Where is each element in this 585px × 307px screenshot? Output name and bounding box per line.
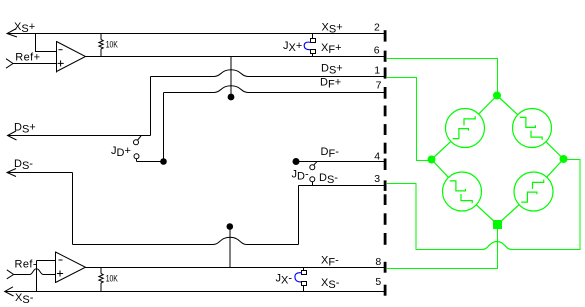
svg-text:JD-: JD- [292, 169, 309, 183]
arrow XS- left [5, 287, 14, 296]
bridge node left [428, 156, 436, 164]
svg-text:2: 2 [374, 22, 380, 34]
connector dash pin 4 [384, 159, 387, 171]
green wire continue to bridge right node [512, 160, 580, 250]
wire DF+ vertical drop [163, 93, 165, 159]
svg-text:XS+: XS+ [322, 21, 343, 35]
green wire left node to G3 [432, 160, 449, 178]
resistor R2 10K feedback [99, 268, 103, 292]
green wire G2 to right node [546, 142, 564, 159]
svg-text:Ref+: Ref+ [15, 52, 40, 64]
svg-text:DF-: DF- [321, 146, 340, 160]
svg-text:JX+: JX+ [283, 40, 302, 54]
connector dash free 6 [384, 233, 387, 245]
svg-text:DS-: DS- [14, 158, 33, 172]
wire XS- sense line [5, 291, 384, 293]
svg-text:XF-: XF- [321, 254, 339, 268]
connector dash free 2 [384, 124, 387, 135]
connector dash pin 8 [384, 262, 387, 273]
wire XF+ branch vertical [230, 57, 232, 95]
junction dot below DF+ hop [228, 94, 235, 101]
green wire G1 to left node [432, 141, 451, 159]
connector dash pin 6 [384, 51, 387, 62]
green wire top node to G1 [479, 96, 497, 115]
connector dash free 4 [384, 194, 387, 205]
strain gauge G4 lower-right [514, 172, 553, 211]
wire DF+ pin line with hop [164, 86, 385, 93]
jumper JX+ [304, 34, 315, 57]
svg-text:10K: 10K [106, 40, 119, 50]
svg-text:3: 3 [374, 173, 380, 185]
bridge node top [493, 92, 501, 100]
wire Ref+ to non-inverting input of U1 [13, 63, 57, 65]
green wire pin1 DS+ to bridge left [387, 78, 428, 161]
wire inverting feedback vertical [36, 261, 38, 292]
jumper JX- [295, 268, 307, 292]
wire DS+ pin line with hop [151, 70, 385, 77]
svg-text:JD+: JD+ [111, 145, 131, 159]
arrow DS+ left [8, 131, 17, 140]
wire DS- vertical riser left [72, 173, 74, 245]
svg-text:4: 4 [374, 150, 380, 162]
svg-text:6: 6 [374, 45, 380, 57]
op-amp U1 [57, 41, 86, 73]
green wire pin8 XF- to bridge bottom [387, 229, 498, 269]
wire XS+ sense line [7, 33, 384, 35]
wire XS+ to inverting input of U1 [36, 34, 57, 52]
junction dot XF- branch top [227, 223, 234, 230]
svg-text:5: 5 [375, 276, 381, 288]
connector dash pin 1 [384, 67, 387, 78]
wire DS- return with hop [73, 237, 299, 244]
svg-text:DF+: DF+ [320, 77, 341, 91]
svg-text:8: 8 [375, 256, 381, 268]
svg-text:DS+: DS+ [321, 63, 343, 77]
bridge node right [560, 155, 568, 163]
green wire pin3 DS- to bridge right [387, 184, 482, 250]
svg-text:XS-: XS- [321, 277, 340, 291]
arrow Ref- [7, 270, 14, 279]
connector dash free 1 [384, 106, 387, 117]
strain gauge G3 lower-left [443, 172, 482, 211]
svg-text:7: 7 [376, 80, 382, 92]
green wire top node to G2 [497, 96, 518, 115]
svg-text:JX-: JX- [276, 272, 293, 286]
wire inverting input U2 [37, 260, 56, 262]
wire Ref- with hop [14, 269, 56, 275]
svg-text:XS-: XS- [15, 292, 34, 306]
op-amp U2 [56, 252, 86, 284]
svg-text:1: 1 [374, 64, 380, 76]
green wire G4 to bottom node [498, 205, 520, 225]
connector dash pin 3 [384, 180, 387, 191]
connector dash pin 7 [384, 87, 387, 99]
svg-text:10K: 10K [106, 273, 119, 283]
arrow XS+ left [7, 29, 17, 38]
svg-text:DS-: DS- [319, 172, 338, 186]
wire XF- branch vertical [229, 228, 231, 268]
svg-text:DS+: DS+ [14, 121, 36, 135]
connector dash free 5 [384, 213, 387, 225]
jumper JD- open [310, 162, 317, 186]
wire DS+ vertical riser [150, 77, 152, 136]
connector dash free 3 [384, 143, 387, 154]
svg-text:Ref-: Ref- [15, 259, 37, 271]
junction dot DF- left end [293, 158, 300, 165]
wire DS+ sense stub [8, 135, 151, 137]
junction dot DF+ bottom [160, 158, 167, 165]
wire op-amp U1 output / XF+ line [86, 56, 385, 58]
wire op-amp U2 output / XF- line [86, 267, 385, 269]
wire DS- sense stub [7, 172, 73, 174]
strain gauge G1 upper-left [446, 109, 485, 148]
wire DS- pin line [299, 185, 385, 187]
green wire pin6 XF+ to bridge top [387, 59, 498, 93]
svg-text:XF+: XF+ [321, 42, 342, 56]
green wire G3 to bottom node [476, 205, 497, 225]
arrow DS- left [7, 169, 16, 177]
connector dash pin 2 [384, 30, 387, 41]
strain gauge G2 upper-right [513, 109, 552, 148]
jumper JD+ open [134, 136, 164, 162]
green wire right node to G4 [547, 159, 564, 177]
green wire hop over bridge bottom vertical [482, 242, 512, 250]
connector dash pin 5 [384, 285, 387, 296]
bridge node bottom square [493, 220, 502, 229]
resistor R1 10K feedback [99, 34, 103, 57]
wire DS- vertical drop [298, 186, 300, 245]
arrow Ref+ [6, 59, 13, 68]
svg-text:XS+: XS+ [14, 21, 35, 35]
wire DF- pin line [296, 161, 384, 163]
